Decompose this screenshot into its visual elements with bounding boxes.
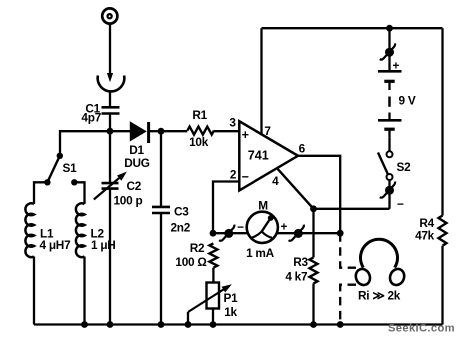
svg-text:100 Ω: 100 Ω bbox=[175, 255, 206, 269]
svg-text:C2: C2 bbox=[127, 179, 142, 193]
svg-text:6: 6 bbox=[299, 141, 306, 155]
wire S1 contact to L2 bbox=[74, 182, 84, 204]
label C3 2n2 bbox=[171, 204, 191, 234]
wire pin6 output bbox=[298, 156, 340, 233]
svg-text:R1: R1 bbox=[192, 108, 207, 122]
wire socket to C1 bbox=[109, 91, 111, 107]
label C1 4p7 bbox=[81, 101, 101, 124]
node battery top junction bbox=[386, 25, 393, 32]
wire P1 to rail bbox=[212, 309, 214, 325]
wire R3 to rail bbox=[312, 283, 314, 324]
wire C2 to bottom rail bbox=[109, 189, 111, 325]
battery clip minus bbox=[380, 182, 395, 198]
label R1 10k bbox=[189, 108, 209, 149]
resistor R3 bbox=[310, 257, 318, 283]
meter M bbox=[247, 212, 278, 243]
svg-text:DUG: DUG bbox=[124, 156, 150, 170]
wire battery to S2 bbox=[388, 137, 390, 151]
label L2 1uH bbox=[91, 226, 116, 252]
rail junction P1 bbox=[210, 321, 217, 328]
headphones bbox=[353, 239, 406, 287]
svg-text:M: M bbox=[258, 198, 268, 212]
wire node B down to C3 bbox=[160, 131, 162, 207]
wire pin4 diagonal bbox=[277, 168, 314, 209]
svg-text:2: 2 bbox=[230, 167, 237, 181]
switch S2 bbox=[378, 151, 393, 180]
svg-text:100 p: 100 p bbox=[114, 194, 143, 208]
label C2 100p bbox=[114, 179, 143, 208]
svg-text:47k: 47k bbox=[415, 229, 435, 243]
svg-text:9 V: 9 V bbox=[399, 94, 416, 108]
resistor R4 bbox=[439, 216, 447, 246]
wire L2 to bottom rail bbox=[83, 257, 85, 325]
wire clip to battery bbox=[388, 52, 390, 71]
label R4 47k bbox=[415, 216, 435, 243]
rail junction R3 bbox=[310, 321, 317, 328]
meter clip right bbox=[289, 225, 304, 241]
wire R2 to P1 bbox=[212, 268, 214, 283]
node B junction bbox=[158, 128, 165, 135]
wire antenna down to plug bbox=[109, 24, 111, 75]
wire R1 to op-amp pin3 bbox=[214, 130, 239, 132]
capacitor C3 bbox=[152, 207, 170, 213]
wire S2 to clip minus bbox=[388, 180, 390, 209]
label R2 100ohm bbox=[175, 241, 206, 269]
dashed wire output to headphone top bbox=[340, 233, 356, 268]
top supply rail bbox=[262, 27, 443, 29]
svg-text:4p7: 4p7 bbox=[81, 111, 101, 125]
op-amp U1 741 triangle bbox=[239, 121, 298, 190]
label L1 4uH7 bbox=[40, 226, 72, 252]
svg-text:1 mA: 1 mA bbox=[246, 246, 275, 260]
meter clip left bbox=[219, 225, 234, 241]
inductor L1 bbox=[25, 203, 34, 257]
svg-text:+: + bbox=[280, 220, 287, 234]
diode D1 bbox=[110, 121, 161, 143]
battery B1 cell1 long plate bbox=[378, 70, 402, 73]
label D1 DUG bbox=[124, 143, 150, 170]
resistor R2 bbox=[209, 243, 217, 267]
svg-text:D1: D1 bbox=[129, 143, 144, 157]
wire node B to R1 bbox=[161, 130, 187, 132]
svg-text:4 k7: 4 k7 bbox=[285, 269, 308, 283]
svg-text:C3: C3 bbox=[174, 204, 189, 218]
wire S1 contact to L1 bbox=[34, 182, 47, 204]
label R3 4k7 bbox=[285, 255, 308, 283]
battery clip plus bbox=[380, 43, 395, 59]
node output junction bbox=[337, 230, 344, 237]
svg-text:1k: 1k bbox=[224, 305, 237, 319]
wire meter row left bbox=[213, 232, 248, 234]
rail junction C3 bbox=[158, 321, 165, 328]
svg-text:3: 3 bbox=[229, 116, 236, 130]
svg-text:−: − bbox=[397, 197, 404, 211]
dashed wire headphone bottom to rail bbox=[340, 285, 356, 325]
svg-text:4: 4 bbox=[272, 174, 279, 188]
node A junction bbox=[107, 128, 114, 135]
aerial plug arrow bbox=[107, 73, 113, 82]
wire L1 to bottom rail bbox=[33, 257, 35, 325]
node pin4 junction bbox=[310, 205, 317, 212]
svg-text:Ri ≫ 2k: Ri ≫ 2k bbox=[358, 289, 401, 303]
rail junction L2 bbox=[81, 321, 88, 328]
wire main top-left horizontal bbox=[60, 131, 110, 155]
svg-text:S2: S2 bbox=[397, 160, 412, 174]
wire pin4 node down to R3 bbox=[312, 209, 314, 258]
aerial socket cup bbox=[98, 76, 125, 92]
wire C3 to bottom rail bbox=[160, 213, 162, 325]
svg-text:R2: R2 bbox=[190, 241, 205, 255]
rail junction headphone return bbox=[337, 321, 344, 328]
svg-text:1 μH: 1 μH bbox=[91, 238, 116, 252]
svg-text:2n2: 2n2 bbox=[171, 220, 191, 234]
svg-text:P1: P1 bbox=[224, 291, 239, 305]
node meter row left bbox=[210, 230, 217, 237]
rail junction C2 bbox=[107, 321, 114, 328]
potentiometer P1 bbox=[188, 283, 232, 325]
svg-text:R3: R3 bbox=[293, 255, 308, 269]
inductor L2 bbox=[76, 203, 85, 257]
battery B1 cell2 long plate bbox=[378, 113, 402, 121]
wire rail to battery clip bbox=[388, 28, 390, 52]
wire R4 to rail bbox=[441, 246, 443, 325]
svg-text:10k: 10k bbox=[189, 135, 209, 149]
svg-text:7: 7 bbox=[264, 124, 271, 138]
bottom ground rail bbox=[34, 323, 443, 325]
antenna jack socket bbox=[102, 8, 117, 23]
wire meter row right bbox=[277, 232, 341, 234]
svg-text:4 μH7: 4 μH7 bbox=[40, 238, 72, 252]
battery B1 cell1 short plate bbox=[384, 81, 394, 90]
wire node A down to C2 bbox=[109, 131, 111, 183]
svg-text:+: + bbox=[242, 128, 249, 142]
wire pin7 to positive rail bbox=[260, 28, 262, 135]
svg-text:−: − bbox=[237, 220, 244, 234]
switch S1 bbox=[44, 153, 77, 186]
battery B1 cell2 short plate bbox=[384, 129, 394, 137]
svg-text:S1: S1 bbox=[63, 161, 78, 175]
wire battery minus to pin4 node bbox=[314, 208, 390, 210]
resistor R1 bbox=[187, 127, 214, 135]
rail junction P1 wiper bbox=[185, 321, 192, 328]
label P1 1k bbox=[224, 291, 239, 319]
battery dashed middle bbox=[388, 97, 391, 107]
svg-text:SeekIC.com: SeekIC.com bbox=[388, 322, 455, 334]
capacitor C1 bbox=[102, 107, 120, 113]
wire C1 to node A bbox=[109, 114, 111, 134]
variable capacitor C2 bbox=[94, 172, 127, 200]
svg-text:−: − bbox=[242, 170, 249, 184]
wire R4 top bbox=[441, 28, 443, 215]
wire pin2 feedback bbox=[213, 182, 239, 234]
svg-text:741: 741 bbox=[248, 149, 269, 163]
